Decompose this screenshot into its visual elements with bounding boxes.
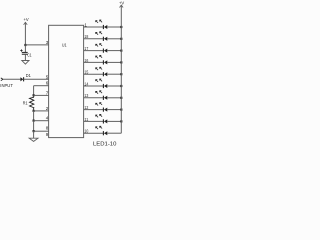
svg-text:LED1-10: LED1-10 [93, 142, 117, 148]
wire rail pin4 to pin8 [33, 121, 35, 132]
LED 5 (pin 15) [84, 67, 122, 76]
node LED 4 / +V bus junction [120, 61, 122, 63]
node LED 7 / +V bus junction [120, 97, 122, 99]
input terminal [1, 78, 3, 81]
IC U1 [49, 25, 84, 137]
wire pin 7 [34, 94, 49, 96]
svg-text:+V: +V [119, 1, 125, 6]
wire pin 4 [34, 120, 49, 122]
node LED 9 / +V bus junction [120, 120, 122, 122]
wire pin 8 [34, 130, 49, 132]
wire pin 2 [34, 110, 49, 112]
ground (bottom rail) [29, 138, 38, 141]
capacitor C1 [20, 49, 32, 57]
svg-text:R1: R1 [23, 100, 28, 105]
LED 6 (pin 14) [84, 79, 122, 88]
LED 8 (pin 12) [84, 103, 122, 112]
LED 9 (pin 11) [84, 114, 122, 123]
node LED 5 / +V bus junction [120, 73, 122, 75]
svg-text:C1: C1 [27, 53, 32, 58]
node pin2 junction [33, 110, 35, 112]
node LED 6 / +V bus junction [120, 85, 122, 87]
wire +V left down to junction [24, 22, 26, 45]
wire pin 6 [34, 85, 49, 87]
svg-text:+V: +V [24, 17, 30, 22]
resistor R1 [23, 96, 34, 109]
svg-text:U1: U1 [62, 42, 67, 48]
node pin8 junction [33, 130, 35, 132]
node LED 8 / +V bus junction [120, 109, 122, 111]
LED 1 (pin 1) [84, 20, 122, 29]
node LED 2 / +V bus junction [120, 38, 122, 40]
power +V (left) [24, 17, 30, 25]
wire +V bus (right) [120, 5, 122, 133]
node pin4 junction [33, 120, 35, 122]
svg-text:D1: D1 [26, 73, 31, 78]
LED 10 (pin 10) [84, 126, 122, 135]
node LED 3 / +V bus junction [120, 50, 122, 52]
node pin7/R1 junction [33, 94, 35, 96]
LED 4 (pin 16) [84, 55, 122, 64]
LED 3 (pin 17) [84, 44, 122, 53]
wire input to D1 [3, 78, 21, 80]
wire rail to ground [33, 131, 35, 138]
diode D1 [20, 73, 31, 81]
ground (below C1) [22, 61, 29, 65]
LED 7 (pin 13) [84, 91, 122, 100]
wire D1 to pin 5 [24, 78, 49, 80]
wire C1 to ground [24, 54, 26, 60]
power +V (right) [119, 1, 125, 8]
node LED 1 / +V bus junction [120, 26, 122, 28]
LED 2 (pin 18) [84, 32, 122, 41]
svg-text:INPUT: INPUT [0, 83, 13, 88]
wire rail pin2 to pin4 [33, 111, 35, 121]
node +V/C1/pin3 junction [24, 44, 26, 46]
wire rail pin6 to pin7 [33, 86, 35, 96]
wire junction to C1 [24, 46, 26, 53]
wire junction to pin 3 [25, 44, 48, 46]
